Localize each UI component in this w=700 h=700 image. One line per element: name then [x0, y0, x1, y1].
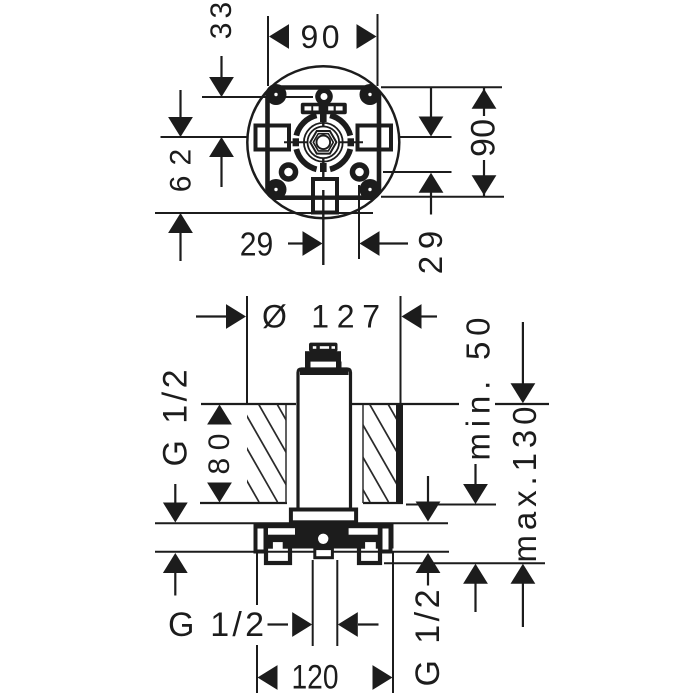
wall surface line [201, 403, 296, 405]
flange top level line [155, 522, 448, 524]
east tab [348, 138, 355, 146]
left notch box [256, 126, 290, 150]
svg-text:90: 90 [301, 19, 340, 55]
wire: ext line x312.7 (G1/2 centre left) [312, 560, 314, 646]
hex nut outer [310, 131, 336, 154]
dimension G1/2 centre [268, 623, 289, 625]
wire: ext line x393 (120 right) [392, 552, 394, 693]
wire: ref line y137 left [161, 136, 248, 138]
bottom box right shoulders [361, 542, 366, 549]
wire: ref line y87 right [381, 86, 502, 88]
wire: ext line x268 (90 top left) [267, 16, 269, 86]
north stub [320, 113, 327, 122]
dimension 80 [207, 405, 232, 425]
wire: ext line x400.5 (d127 right) [400, 296, 402, 404]
right notch box [358, 126, 392, 150]
wire: center line below circle [322, 190, 324, 265]
wall bottom line [200, 502, 287, 504]
svg-text:33: 33 [205, 2, 238, 40]
svg-text:29: 29 [240, 226, 274, 263]
wire: ext line x247 (d127 left) [246, 296, 248, 404]
svg-text:90: 90 [465, 119, 503, 157]
screw top-right [360, 84, 381, 105]
cap mid [305, 351, 341, 361]
wall face bar [396, 404, 403, 503]
wall hatch right [185, 404, 445, 502]
front level line [384, 562, 545, 564]
cap feet [305, 362, 311, 369]
wire: ref line y137 right [400, 136, 452, 138]
bottom box left [266, 540, 290, 563]
dimension 62 [168, 117, 193, 137]
svg-text:Ø 127: Ø 127 [262, 299, 380, 335]
lower-left hole [279, 162, 299, 182]
svg-text:G 1/2: G 1/2 [168, 606, 264, 644]
svg-text:G 1/2: G 1/2 [409, 590, 447, 687]
lower-right hole [350, 162, 370, 182]
svg-text:min. 50: min. 50 [460, 318, 497, 461]
wall hatch left [185, 404, 445, 502]
wire: ext line x359 below circle [358, 185, 360, 259]
hex nut inner [313, 134, 333, 151]
svg-text:120: 120 [292, 659, 339, 697]
mounting plate outline [268, 88, 380, 198]
centre notch [315, 549, 333, 558]
body band [300, 371, 349, 376]
dimension 120 [258, 665, 278, 690]
flange end cap right [381, 527, 391, 552]
valve circle r19 [304, 123, 343, 162]
body [298, 369, 351, 509]
flange window left [268, 528, 295, 535]
dimension G1/2 right port [427, 476, 429, 506]
svg-text:62: 62 [165, 149, 198, 193]
wire: ref line y97 top screw level [202, 96, 313, 98]
flange circle [247, 66, 399, 218]
south stub [320, 163, 327, 172]
svg-text:80: 80 [203, 434, 236, 475]
svg-text:max.130: max.130 [506, 407, 543, 563]
plate bottom edge over tab [290, 196, 360, 200]
flange end cap left [256, 527, 266, 552]
valve retainer ring arcs [296, 115, 350, 169]
wire: ext line x377.5 (90 top right) [377, 14, 379, 86]
top bracket [301, 103, 347, 114]
dimension G1/2 left port [174, 484, 176, 506]
wire: ref line y196.8 right [381, 196, 504, 198]
wire: ext line x337.3 (G1/2 centre right) [336, 560, 338, 646]
flange window right [349, 528, 378, 535]
centre bore ring [317, 136, 331, 150]
screw top-left [266, 84, 287, 105]
wire: ref line y213 long bottom reference [155, 212, 373, 214]
flange bottom level line [155, 551, 449, 553]
svg-text:G 1/2: G 1/2 [157, 370, 195, 467]
bottom tab box [313, 179, 337, 213]
flange centre hole [318, 534, 328, 544]
dimension 90 right [483, 88, 485, 117]
bottom box right [359, 540, 380, 563]
valve centre crosshair [284, 141, 363, 143]
dimension d127 [196, 315, 227, 317]
dimension 90 top [269, 24, 289, 49]
flange bar [254, 524, 394, 549]
wire: ref line y172 right [383, 171, 452, 173]
dimension max130 arrows [522, 322, 524, 385]
west tab [293, 138, 299, 146]
wire: ext line x257 (120 left, broken at G 1/2 text) [256, 552, 258, 605]
dimension 29 vertical right [430, 88, 432, 117]
collar [291, 510, 356, 523]
dimension min50 arrows [474, 464, 476, 486]
top pilot hole [315, 88, 333, 106]
cap knob [309, 343, 338, 352]
bottom box left shoulders [268, 542, 273, 549]
min level line [406, 504, 496, 506]
valve circle r15.6 [308, 127, 340, 159]
screw bottom-right [360, 179, 381, 200]
screw bottom-left [266, 179, 287, 200]
svg-text:29: 29 [412, 231, 449, 275]
